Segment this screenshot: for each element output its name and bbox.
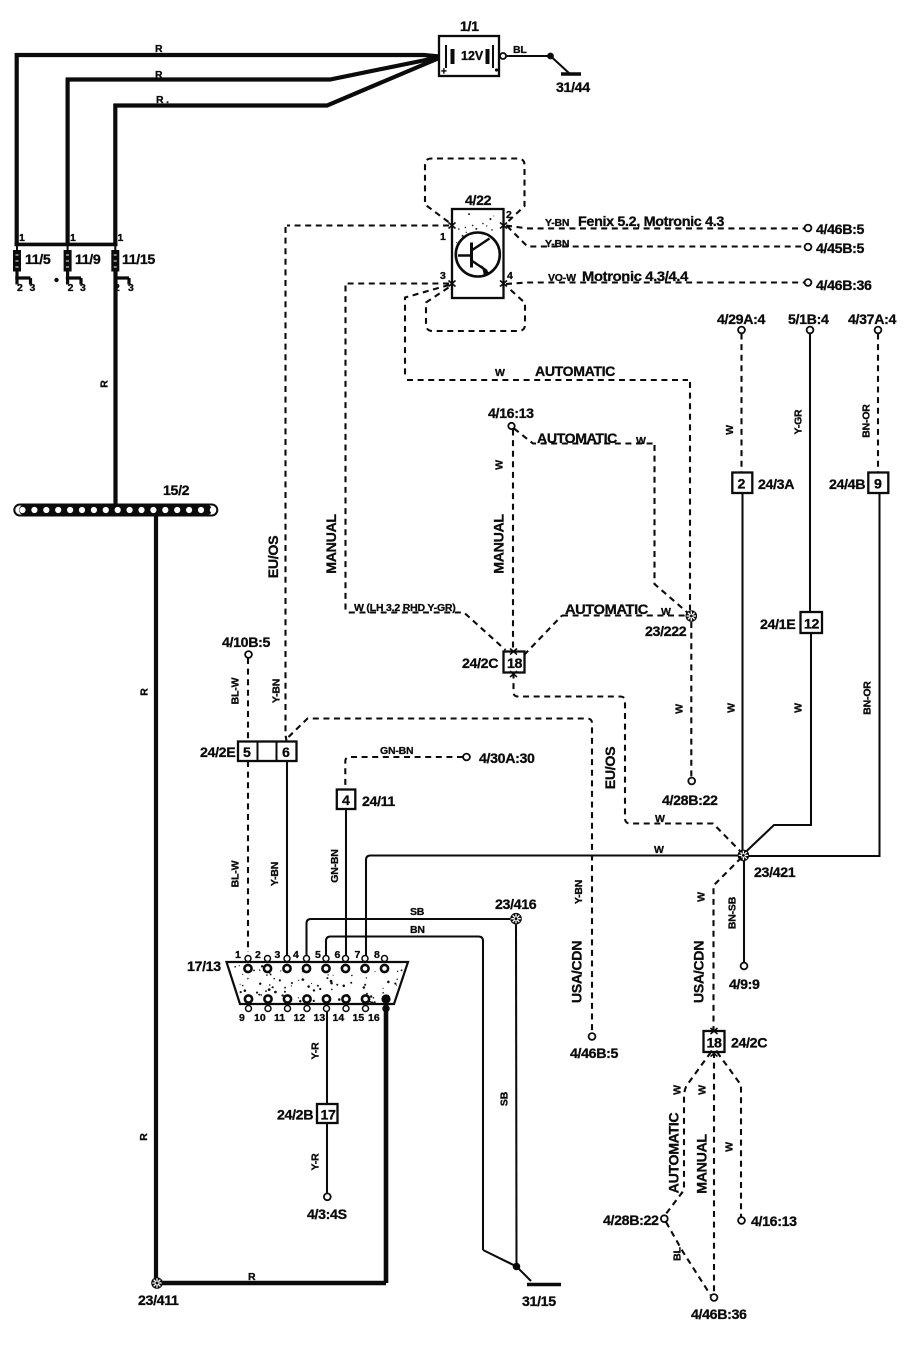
junction dot [547, 53, 554, 60]
svg-text:BL-W: BL-W [230, 677, 242, 704]
stray mark [54, 278, 58, 282]
svg-text:W: W [726, 703, 738, 713]
junction 23/222 [645, 610, 697, 640]
svg-text:2: 2 [506, 209, 512, 221]
connector 17/13 [187, 959, 408, 1004]
svg-text:9: 9 [874, 477, 882, 493]
svg-text:W: W [674, 704, 686, 714]
svg-text:24/2C: 24/2C [462, 656, 498, 672]
svg-text:4/16:13: 4/16:13 [751, 1214, 797, 1230]
power stage 4/22 [452, 209, 504, 298]
svg-text:BL: BL [672, 1246, 684, 1260]
pin terminal marks 4/22 [449, 223, 508, 287]
svg-text:13: 13 [314, 1012, 326, 1024]
connector 24/2B pin 17 [277, 1104, 338, 1124]
svg-text:2: 2 [17, 282, 23, 294]
bus bar fuse tops [15, 243, 118, 247]
terminal 4/3:4S [324, 1193, 331, 1200]
wire W 24/2C to 4/16:13 [717, 1052, 741, 1217]
svg-text:4/29A:4: 4/29A:4 [717, 312, 765, 328]
svg-text:12V: 12V [461, 49, 484, 63]
svg-text:EU/OS: EU/OS [603, 747, 619, 789]
svg-text:4/37A:4: 4/37A:4 [848, 312, 896, 328]
wire VO-W pin4 to 4/46B:36 [506, 283, 804, 285]
svg-text:4/16:13: 4/16:13 [488, 406, 534, 422]
svg-text:31/15: 31/15 [522, 1294, 556, 1310]
dashed harness blob above 4/22 [425, 159, 525, 223]
terminal 4/46B:5 lower [589, 1033, 596, 1040]
svg-text:8: 8 [374, 949, 380, 961]
svg-text:15: 15 [353, 1012, 365, 1024]
terminal 4/28B:22 lower [661, 1215, 668, 1222]
svg-text:Y-BN: Y-BN [573, 880, 585, 904]
svg-text:+: + [441, 67, 447, 78]
svg-text:AUTOMATIC: AUTOMATIC [667, 1113, 683, 1194]
svg-text:R: R [155, 69, 163, 81]
svg-text:4/45B:5: 4/45B:5 [816, 241, 864, 257]
svg-text:4/28B:22: 4/28B:22 [603, 1213, 659, 1229]
svg-text:Y-R: Y-R [310, 1042, 322, 1060]
svg-text:W: W [724, 1142, 736, 1152]
connector 24/4B pin 9 [829, 473, 888, 494]
svg-text:W: W [661, 606, 671, 618]
wire BL-W 24/2E:5 to 17/13 pin1 [247, 761, 249, 952]
wire Y-BN branch to 4/45B:5 [507, 226, 804, 247]
wire Y-BN USA/CDN branch to 4/46B:5 [289, 719, 593, 1032]
svg-text:W: W [636, 435, 646, 447]
svg-text:GN-BN: GN-BN [380, 745, 413, 757]
svg-text:1/1: 1/1 [460, 19, 479, 35]
junction 23/421 [738, 850, 796, 881]
wire R pin16 to 23/411 [160, 999, 386, 1283]
17/13 bottom pin numbers [239, 1012, 380, 1024]
wire W MANUAL 4/16:13 to 24/2C [512, 430, 514, 652]
wire Y-GR 5/1B:4 to 24/1E [809, 334, 811, 613]
svg-text:23/411: 23/411 [138, 1293, 179, 1309]
wire drop to fuse 11/15 [113, 104, 117, 245]
svg-text:Y-BN: Y-BN [545, 238, 569, 250]
svg-text:23/222: 23/222 [645, 624, 687, 640]
svg-text:SB: SB [410, 906, 425, 918]
wire GN-BN 24/11 to 17/13 pin6 [345, 809, 347, 956]
svg-text:23/421: 23/421 [754, 865, 796, 881]
svg-text:2: 2 [68, 282, 74, 294]
svg-text:7: 7 [355, 949, 361, 961]
svg-text:W: W [672, 1085, 684, 1095]
wire BN-SB 23/421 to 4/9:9 [743, 861, 745, 962]
terminal 4/46B:5 [805, 225, 812, 232]
transistor symbol [456, 233, 500, 277]
wire SB 23/416 down [515, 925, 518, 1264]
svg-text:17: 17 [321, 1108, 337, 1124]
wire drop to fuse 11/5 [15, 53, 19, 244]
battery output terminal [500, 53, 506, 59]
svg-text:2: 2 [255, 949, 261, 961]
svg-text:Fenix 5.2, Motronic 4.3: Fenix 5.2, Motronic 4.3 [578, 214, 724, 230]
svg-text:18: 18 [707, 1036, 723, 1052]
wire W MANUAL 24/2C to 4/46B:36 [713, 1052, 715, 1293]
svg-text:R: R [139, 688, 151, 696]
wire BL-W 4/10B:5 to 24/2E:5 [247, 658, 249, 741]
svg-text:AUTOMATIC: AUTOMATIC [535, 364, 615, 380]
svg-text:18: 18 [507, 656, 523, 672]
svg-text:W: W [724, 425, 736, 435]
17/13 bottom pin circles [245, 995, 369, 1002]
junction 23/411 [138, 1277, 179, 1309]
svg-text:1: 1 [440, 231, 446, 243]
svg-text:W: W [696, 892, 708, 902]
svg-text:R .: R . [156, 94, 169, 106]
wire BN pin5 to ground run [326, 937, 483, 1251]
terminal 4/45B:5 [805, 244, 812, 251]
svg-text:MANUAL: MANUAL [492, 514, 508, 574]
svg-text:4: 4 [293, 949, 299, 961]
svg-text:11: 11 [274, 1012, 285, 1024]
wire AUTOMATIC pin3 to 23/222 [405, 285, 690, 610]
connector 24/3A pin 2 [732, 473, 794, 494]
svg-text:USA/CDN: USA/CDN [692, 941, 708, 1003]
svg-text:R: R [138, 1133, 150, 1141]
svg-text:Y-R: Y-R [310, 1153, 322, 1171]
ground 31/15 [527, 1283, 561, 1286]
svg-text:BN-SB: BN-SB [727, 896, 739, 929]
svg-text:4/46B:36: 4/46B:36 [691, 1307, 747, 1323]
svg-text:24/2C: 24/2C [731, 1036, 767, 1052]
wire Y-R 24/2B to 4/3:4S [326, 1123, 328, 1193]
svg-text:4: 4 [507, 270, 513, 282]
svg-text:3: 3 [80, 282, 86, 294]
wire Y-R pin13 to 24/2B [326, 1011, 328, 1104]
svg-text:3: 3 [30, 282, 36, 294]
svg-text:R: R [248, 1271, 256, 1283]
wire W 4/29A:4 to 24/3A [740, 334, 742, 473]
svg-text:31/44: 31/44 [556, 80, 590, 96]
wire BL 4/28B:22 to 4/46B:36 [666, 1222, 711, 1295]
wire Y-BN 24/2E:6 to 17/13 pin3 [286, 761, 288, 956]
connector 24/2C pin 18 [462, 649, 525, 678]
svg-text:17/13: 17/13 [187, 959, 221, 975]
svg-text:W: W [654, 844, 664, 856]
svg-text:MANUAL: MANUAL [695, 1134, 711, 1194]
svg-text:1: 1 [70, 232, 76, 244]
svg-text:11/5: 11/5 [25, 252, 51, 268]
svg-text:3: 3 [275, 949, 281, 961]
svg-text:1: 1 [235, 949, 241, 961]
svg-text:12: 12 [294, 1012, 306, 1024]
svg-text:10: 10 [254, 1012, 266, 1024]
svg-text:15/2: 15/2 [163, 483, 190, 499]
terminal 4/46B:36 lower [711, 1294, 718, 1301]
wire BL battery to ground [506, 55, 550, 57]
svg-text:2: 2 [738, 477, 746, 493]
wire R battery feed 3 [114, 59, 438, 106]
svg-text:3: 3 [128, 282, 134, 294]
terminal 4/9:9 [741, 963, 748, 970]
svg-text:24/11: 24/11 [362, 794, 395, 810]
wire BN-OR 24/4B to 23/421 [748, 493, 880, 856]
svg-text:Y-BN: Y-BN [269, 862, 281, 886]
wire SB pin4 to 23/416 [307, 919, 511, 955]
fuse 11/5 [13, 244, 51, 294]
svg-text:24/4B: 24/4B [829, 477, 865, 493]
svg-text:Motronic 4.3/4.4: Motronic 4.3/4.4 [582, 269, 688, 285]
svg-text:9: 9 [239, 1012, 245, 1024]
svg-text:4/22: 4/22 [465, 193, 492, 209]
svg-text:Y-GR: Y-GR [793, 409, 805, 434]
svg-text:5/1B:4: 5/1B:4 [788, 312, 829, 328]
svg-text:6: 6 [282, 745, 290, 761]
svg-text:GN-BN: GN-BN [329, 849, 341, 882]
svg-text:R: R [155, 43, 163, 55]
svg-text:4/28B:22: 4/28B:22 [662, 793, 718, 809]
wire BN-OR 4/37A:4 to 24/4B [877, 334, 879, 473]
wire R fuse 11/15 to 15/2 [113, 271, 117, 505]
svg-text:5: 5 [315, 949, 321, 961]
ground 31/44 [561, 72, 581, 75]
svg-text:EU/OS: EU/OS [266, 536, 282, 578]
connector 24/2E [200, 742, 297, 762]
svg-text:W: W [494, 460, 506, 470]
svg-text:W (LH 3.2 RHD Y-GR): W (LH 3.2 RHD Y-GR) [354, 602, 456, 614]
wire Y-BN EU/OS 4/22 pin1 to 24/2E:6 [286, 226, 450, 742]
svg-text:24/1E: 24/1E [760, 617, 795, 633]
terminal 4/28B:22 [688, 778, 695, 785]
svg-text:BL: BL [513, 44, 527, 56]
svg-text:16: 16 [368, 1012, 380, 1024]
svg-text:BN-OR: BN-OR [862, 681, 874, 715]
svg-text:1: 1 [19, 232, 25, 244]
svg-text:4/46B:5: 4/46B:5 [816, 222, 864, 238]
svg-text:W: W [697, 1085, 709, 1095]
svg-text:4/30A:30: 4/30A:30 [479, 751, 535, 767]
svg-text:24/3A: 24/3A [758, 477, 794, 493]
junction dot BN/SB [513, 1263, 521, 1271]
battery 1/1 [439, 36, 499, 78]
svg-text:USA/CDN: USA/CDN [570, 941, 586, 1003]
svg-text:AUTOMATIC: AUTOMATIC [565, 602, 648, 618]
svg-text:1: 1 [118, 232, 124, 244]
connector 24/1E pin 12 [760, 612, 822, 633]
svg-text:VO-W: VO-W [548, 272, 576, 284]
wire MANUAL pin3 to 24/2C [346, 284, 506, 651]
svg-text:W: W [793, 703, 805, 713]
wire W to 23/421 [366, 856, 738, 957]
svg-text:12: 12 [804, 617, 820, 633]
wire R 15/2 to 23/411 [154, 515, 158, 1283]
svg-text:SB: SB [499, 1091, 511, 1106]
svg-text:23/416: 23/416 [495, 897, 537, 913]
wire AUTOMATIC 4/16:13 branch to 23/222 [514, 429, 689, 614]
wire EU/OS 24/2C to 23/421 [514, 673, 742, 853]
svg-text:24/2B: 24/2B [277, 1108, 313, 1124]
svg-text:W: W [655, 813, 665, 825]
wire AUTOMATIC 24/2C to 23/222 [524, 616, 686, 656]
wire W 24/1E to 23/421 [744, 633, 812, 854]
terminal 4/16:13 lower [738, 1217, 745, 1224]
svg-text:3: 3 [440, 270, 446, 282]
svg-text:R: R [99, 380, 111, 388]
17/13 top pin numbers [235, 949, 380, 961]
svg-text:11/15: 11/15 [122, 252, 155, 268]
wire W AUTOMATIC 24/2C to 4/28B:22 [666, 1052, 712, 1215]
wire W 23/222 to 4/28B:22 [690, 622, 692, 777]
connector 24/11 pin 4 [337, 790, 396, 811]
svg-text:Y-BN: Y-BN [271, 679, 283, 703]
svg-text:4/10B:5: 4/10B:5 [222, 635, 270, 651]
svg-text:14: 14 [333, 1012, 345, 1024]
svg-text:BL-W: BL-W [230, 860, 242, 887]
svg-text:5: 5 [243, 745, 251, 761]
svg-text:BN: BN [410, 924, 425, 936]
wire W 24/3A to 23/421 [741, 493, 743, 852]
terminal 4/46B:36 [805, 279, 812, 286]
svg-text:11/9: 11/9 [75, 252, 101, 268]
svg-text:MANUAL: MANUAL [324, 514, 340, 574]
svg-text:4: 4 [342, 793, 350, 809]
svg-text:6: 6 [335, 949, 341, 961]
17/13 top pin circles [245, 956, 388, 962]
svg-text:4/46B:5: 4/46B:5 [570, 1046, 618, 1062]
terminal 4/30A:30 [463, 754, 470, 761]
svg-text:4/3:4S: 4/3:4S [307, 1207, 347, 1223]
svg-text:24/2E: 24/2E [200, 745, 235, 761]
wire R battery feed 2 [66, 58, 438, 80]
wire to ground [551, 56, 571, 74]
junction 23/416 [495, 897, 537, 925]
connector 24/2C pin 18 lower [704, 1028, 768, 1057]
wire drop to fuse 11/9 [65, 78, 69, 245]
wire W USA/CDN 23/421 to 24/2C [714, 858, 742, 1032]
svg-text:AUTOMATIC: AUTOMATIC [537, 431, 617, 447]
fuse 11/9 [64, 244, 101, 294]
svg-text:4/9:9: 4/9:9 [729, 977, 760, 993]
svg-text:4/46B:36: 4/46B:36 [816, 278, 872, 294]
svg-text:W: W [495, 367, 505, 379]
wire R battery feed 1 [15, 55, 439, 57]
wire Y-BN pin2 to 4/46B:5 [506, 226, 804, 229]
svg-text:Y-BN: Y-BN [545, 217, 569, 229]
dashed harness blob below 4/22 [426, 288, 525, 332]
wire GN-BN 4/30A:30 to 24/11 [345, 757, 463, 789]
fuse 11/15 [111, 244, 155, 294]
svg-text:BN-OR: BN-OR [861, 404, 873, 438]
